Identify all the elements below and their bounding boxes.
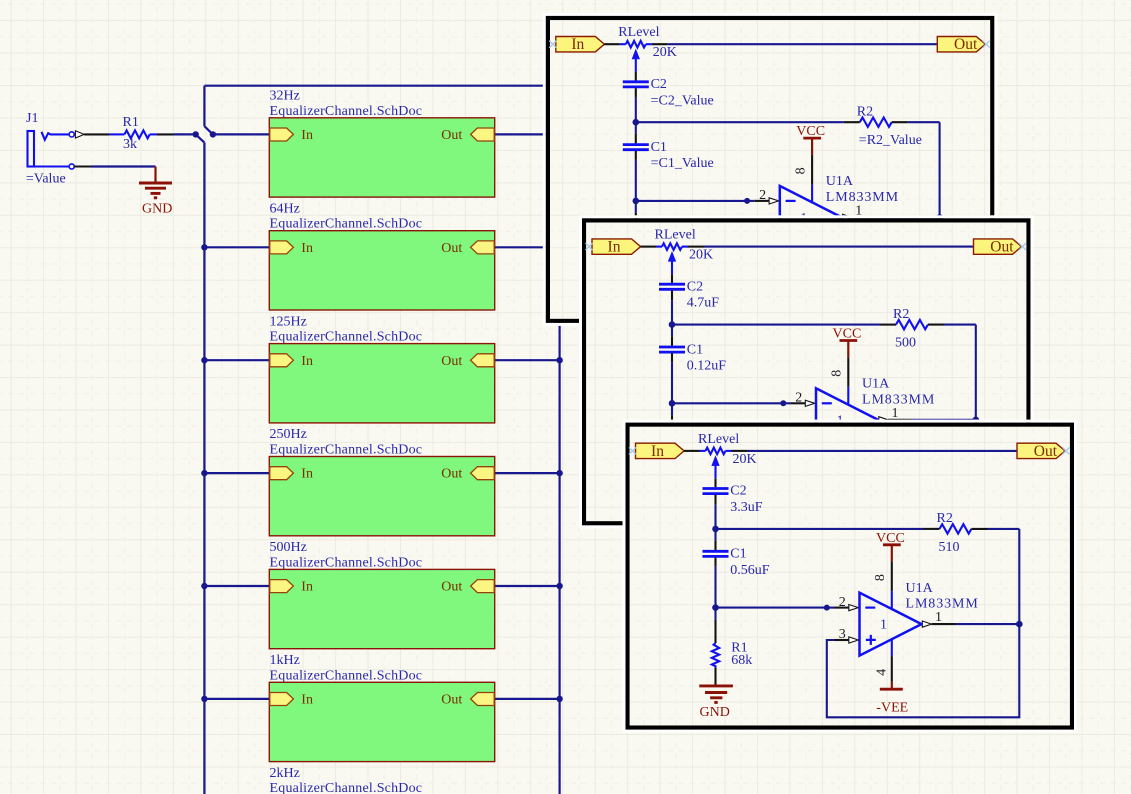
wire J1 sleeve to GND xyxy=(74,165,91,167)
svg-text:EqualizerChannel.SchDoc: EqualizerChannel.SchDoc xyxy=(270,555,423,570)
sheet symbol 250Hz xyxy=(269,457,494,536)
resistor R1 xyxy=(125,130,150,138)
circuit of box 1 xyxy=(549,25,990,313)
circuit of box 2 xyxy=(586,228,1027,516)
wire In branch xyxy=(204,472,269,474)
svg-text:4.7uF: 4.7uF xyxy=(687,296,720,311)
wire Out branch xyxy=(495,472,560,474)
sheet symbol 125Hz xyxy=(269,344,494,423)
circuit of box 3 xyxy=(629,432,1070,720)
svg-text:R1: R1 xyxy=(123,115,139,130)
wire diagonal joins xyxy=(204,126,213,134)
wire In branch xyxy=(204,246,269,248)
wire Out branch xyxy=(495,585,560,587)
svg-text:0.12uF: 0.12uF xyxy=(687,359,727,374)
wire In branch top xyxy=(213,133,269,135)
ground GND xyxy=(154,167,156,183)
wire out bus xyxy=(558,134,560,794)
svg-text:J1: J1 xyxy=(26,111,38,126)
wire trunk vertical xyxy=(203,143,205,794)
wire J1 to R1 xyxy=(84,133,109,135)
wire Out branch xyxy=(495,698,560,700)
wire R1 to trunk xyxy=(150,133,157,135)
sheet preview box 1 xyxy=(544,14,996,324)
svg-text:32Hz: 32Hz xyxy=(270,89,300,104)
wire In branch xyxy=(204,698,269,700)
svg-text:EqualizerChannel.SchDoc: EqualizerChannel.SchDoc xyxy=(270,217,423,232)
wire Out branch xyxy=(495,133,560,135)
svg-text:EqualizerChannel.SchDoc: EqualizerChannel.SchDoc xyxy=(270,668,423,683)
wire In branch xyxy=(204,585,269,587)
svg-text:EqualizerChannel.SchDoc: EqualizerChannel.SchDoc xyxy=(270,330,423,345)
svg-text:510: 510 xyxy=(939,540,960,555)
svg-text:GND: GND xyxy=(142,201,172,216)
svg-text:=R2_Value: =R2_Value xyxy=(859,133,922,148)
svg-text:0.56uF: 0.56uF xyxy=(730,563,770,578)
svg-text:3.3uF: 3.3uF xyxy=(730,500,763,515)
junction dots xyxy=(193,131,199,137)
svg-text:3k: 3k xyxy=(123,137,137,152)
wire In branch xyxy=(204,359,269,361)
svg-text:=C2_Value: =C2_Value xyxy=(651,93,714,108)
svg-text:=C1_Value: =C1_Value xyxy=(651,156,714,171)
sheet preview box 3 xyxy=(624,421,1076,731)
svg-text:500: 500 xyxy=(895,336,916,351)
svg-text:250Hz: 250Hz xyxy=(270,427,307,442)
sheet preview box 2 xyxy=(581,217,1033,527)
svg-text:EqualizerChannel.SchDoc: EqualizerChannel.SchDoc xyxy=(270,443,423,458)
wire trunk top xyxy=(204,85,548,87)
svg-text:EqualizerChannel.SchDoc: EqualizerChannel.SchDoc xyxy=(270,781,423,794)
svg-text:1kHz: 1kHz xyxy=(270,653,300,668)
svg-text:500Hz: 500Hz xyxy=(270,540,307,555)
svg-text:64Hz: 64Hz xyxy=(270,201,300,216)
sheet symbol 500Hz xyxy=(269,569,494,648)
sheet symbol 1kHz xyxy=(269,682,494,761)
wire Out branch xyxy=(495,246,560,248)
sheet symbol 64Hz xyxy=(269,231,494,310)
svg-text:=Value: =Value xyxy=(26,172,66,187)
svg-text:2kHz: 2kHz xyxy=(270,766,300,781)
svg-text:EqualizerChannel.SchDoc: EqualizerChannel.SchDoc xyxy=(270,104,423,119)
wire Out branch xyxy=(495,359,560,361)
svg-text:125Hz: 125Hz xyxy=(270,314,307,329)
sheet symbol 32Hz xyxy=(269,118,494,197)
